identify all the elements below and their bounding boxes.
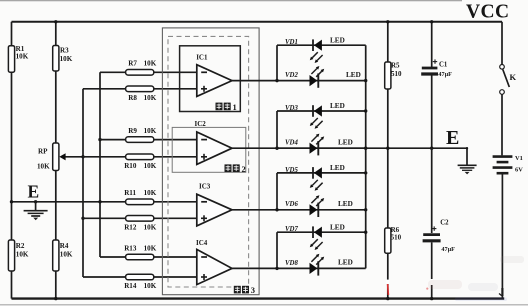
socket 1 box	[180, 46, 241, 112]
wire C1 to E row	[431, 76, 433, 149]
C2 plus sign	[432, 228, 436, 230]
svg-text:K: K	[510, 72, 517, 82]
wire IC3 output	[232, 209, 277, 211]
wire VD3 top side	[277, 110, 366, 112]
svg-text:R7: R7	[128, 60, 137, 68]
wire R5-R6 column	[387, 22, 389, 299]
VD1 emission arrows	[312, 52, 318, 58]
resistor R14	[126, 274, 154, 280]
C1 plus sign	[433, 61, 437, 63]
resistor R2	[8, 240, 14, 271]
node LED bus junction	[364, 231, 367, 234]
wire R10 row	[83, 156, 197, 158]
node C2-rail junction	[430, 297, 433, 300]
svg-text:R2: R2	[16, 242, 25, 250]
node VCC-R5 junction	[386, 20, 389, 23]
svg-text:R14: R14	[124, 282, 137, 290]
svg-text:V1: V1	[515, 155, 523, 162]
switch K upper contact	[500, 65, 505, 70]
ground symbol right	[458, 164, 477, 166]
wire C2 lower segment	[431, 285, 433, 299]
IC3 minus sign	[201, 201, 207, 203]
svg-text:10K: 10K	[144, 189, 157, 197]
VD5 emission arrows	[312, 180, 318, 186]
wire pair left vertical VD3/VD4	[276, 111, 278, 148]
IC1 minus sign	[201, 71, 207, 73]
svg-text:E: E	[446, 127, 459, 149]
node V1-R12 row junction	[81, 217, 84, 220]
node output-VD2 junction	[275, 79, 278, 82]
switch K lower contact	[500, 90, 505, 95]
LED VD8	[310, 263, 318, 274]
resistor R8	[126, 86, 154, 92]
svg-text:LED: LED	[330, 164, 345, 172]
svg-text:VD5: VD5	[285, 167, 298, 174]
node V2-E row junction	[98, 200, 101, 203]
svg-text:R4: R4	[60, 242, 69, 250]
wire VD7 top side	[277, 231, 366, 233]
svg-text:1: 1	[233, 102, 237, 112]
IC4 minus sign	[201, 256, 207, 258]
svg-text:C2: C2	[440, 220, 449, 227]
svg-text:LED: LED	[330, 36, 345, 44]
node VCC-R3 junction	[54, 20, 57, 23]
resistor R13	[126, 254, 154, 260]
wire bus V1 (non-inverting inputs)	[82, 89, 84, 277]
node LED bus junction	[364, 147, 367, 150]
wire C1-C2 column upper	[431, 22, 433, 67]
svg-text:3: 3	[251, 285, 255, 295]
node E-C1C2 junction	[430, 147, 433, 150]
node output-VD6 junction	[275, 208, 278, 211]
ground bottom rail wire	[12, 297, 505, 299]
svg-text:R10: R10	[124, 162, 137, 170]
node V1-R10 row junction	[81, 155, 84, 158]
module outer box	[162, 28, 259, 295]
svg-text:VD4: VD4	[285, 140, 298, 147]
wire bus V2 (inverting inputs)	[99, 72, 101, 257]
svg-text:R13: R13	[124, 244, 137, 252]
svg-text:E: E	[28, 182, 40, 202]
label socket1 (chazuo1)	[216, 103, 223, 111]
faint watermark smudges	[428, 256, 524, 301]
LED VD7	[312, 226, 314, 238]
VD8 emission arrows	[311, 256, 317, 262]
resistor R11	[126, 199, 154, 205]
module dashed box	[168, 36, 249, 287]
node VCC-C1 junction	[430, 20, 433, 23]
node LED bus junction	[364, 109, 367, 112]
svg-text:10K: 10K	[144, 244, 157, 252]
bottom scan border	[0, 304, 528, 306]
red dot near C2 line	[430, 279, 433, 284]
svg-text:LED: LED	[338, 259, 353, 267]
wire C2 to bottom rail	[431, 242, 433, 279]
capacitor C1	[422, 67, 438, 70]
op-amp IC2	[197, 132, 232, 164]
svg-text:IC2: IC2	[195, 120, 207, 128]
svg-text:10K: 10K	[144, 60, 157, 68]
IC2 plus sign	[201, 156, 207, 158]
wire battery to bottom rail	[501, 174, 503, 298]
resistor R9	[126, 137, 154, 143]
svg-text:6V: 6V	[515, 167, 523, 174]
node R6-rail junction	[386, 297, 389, 300]
svg-text:510: 510	[391, 234, 402, 242]
wire VCC to switch	[501, 22, 503, 65]
LED VD6	[310, 204, 318, 215]
resistor R5	[385, 62, 391, 89]
potentiometer RP body	[53, 143, 59, 171]
wire E corner down	[466, 148, 468, 165]
resistor R10	[126, 154, 154, 160]
wire VD1 top side	[277, 44, 366, 46]
wire R14 row	[83, 276, 197, 278]
svg-text:R12: R12	[124, 223, 137, 231]
resistor R3	[53, 46, 59, 72]
svg-text:R11: R11	[124, 189, 136, 197]
svg-text:IC4: IC4	[196, 239, 208, 247]
svg-text:LED: LED	[330, 223, 345, 231]
svg-text:R8: R8	[128, 94, 137, 102]
wire LED bus right vertical	[365, 45, 367, 268]
svg-text:10K: 10K	[60, 55, 73, 63]
wire R8 row	[83, 88, 197, 90]
wire VD4 bottom side	[277, 147, 366, 149]
capacitor C2	[423, 233, 440, 236]
resistor R7	[126, 70, 154, 76]
svg-text:10K: 10K	[144, 282, 157, 290]
LED VD2	[310, 75, 318, 86]
wire VD8 bottom side	[277, 267, 366, 269]
node output-VD4 junction	[275, 147, 278, 150]
IC4 plus sign	[201, 276, 207, 278]
svg-text:10K: 10K	[16, 53, 29, 61]
svg-text:10K: 10K	[144, 127, 157, 135]
label socket3 (chazuo3)	[234, 286, 241, 294]
op-amp IC1	[197, 65, 232, 97]
label socket2 (chazuo2)	[225, 164, 232, 172]
svg-text:LED: LED	[330, 102, 345, 110]
resistor R1	[8, 46, 14, 72]
VD3 emission arrows	[312, 118, 318, 124]
svg-text:VCC: VCC	[466, 2, 509, 23]
svg-text:10K: 10K	[144, 94, 157, 102]
svg-text:IC1: IC1	[196, 54, 208, 62]
node LED bus junction	[364, 79, 367, 82]
LED VD1	[312, 39, 314, 51]
LED VD4	[310, 143, 318, 154]
wire R12 row	[83, 217, 197, 219]
VD2 emission arrows	[311, 68, 317, 74]
svg-text:47µF: 47µF	[441, 246, 455, 253]
node E row right corner	[466, 147, 468, 149]
resistor R4	[53, 240, 59, 271]
LED VD5	[312, 167, 314, 179]
wire IC2 output / E row right	[232, 147, 467, 149]
VD6 emission arrows	[311, 198, 317, 204]
svg-text:10K: 10K	[37, 163, 50, 171]
node R4-rail junction	[54, 297, 57, 300]
dark hook on battery line	[501, 288, 503, 296]
wire pair left vertical VD5/VD6	[276, 173, 278, 210]
LED VD3	[312, 105, 314, 117]
svg-text:VD6: VD6	[285, 201, 298, 208]
wire IC1 output	[232, 80, 277, 82]
svg-text:C1: C1	[439, 62, 448, 69]
svg-text:IC3: IC3	[199, 183, 211, 191]
wire R13 row	[100, 256, 197, 258]
svg-text:LED: LED	[346, 71, 361, 79]
op-amp IC4	[197, 249, 232, 284]
op-amp IC3	[197, 194, 232, 226]
svg-text:LED: LED	[338, 138, 353, 146]
wire E row (to IC3 inverting input)	[12, 201, 197, 203]
svg-text:R3: R3	[60, 47, 69, 55]
wire E to C2	[431, 148, 433, 233]
page top scan border	[0, 0, 462, 2]
IC3 plus sign	[201, 217, 207, 219]
ground symbol left	[35, 202, 37, 210]
wire pair left vertical VD7/VD8	[276, 232, 278, 268]
wire pair left vertical VD1/VD2	[276, 45, 278, 80]
node E-ground junction	[34, 200, 37, 203]
resistor R6	[385, 228, 391, 253]
node V2-R9 row junction	[98, 138, 101, 141]
wire R7 row	[100, 71, 197, 73]
svg-text:VD7: VD7	[285, 226, 298, 233]
svg-text:10K: 10K	[144, 223, 157, 231]
node LED bus junction	[364, 171, 367, 174]
svg-text:2: 2	[242, 164, 246, 174]
battery V1 plates	[493, 155, 513, 158]
wire VD2 bottom side	[277, 80, 366, 82]
svg-text:VD8: VD8	[285, 260, 298, 267]
svg-text:47µF: 47µF	[438, 71, 452, 78]
wire IC4 output	[232, 267, 277, 269]
wire VD6 bottom side	[277, 209, 366, 211]
svg-text:10K: 10K	[60, 251, 73, 259]
node E-R5R6 junction	[386, 147, 389, 150]
svg-text:VD2: VD2	[285, 72, 298, 79]
red mark on R6 line	[387, 284, 390, 295]
VD4 emission arrows	[311, 136, 317, 142]
wire VD5 top side	[277, 172, 366, 174]
VCC top rail wire	[12, 21, 503, 23]
IC1 plus sign	[201, 88, 207, 90]
svg-text:R5: R5	[391, 61, 400, 69]
svg-text:RP: RP	[38, 147, 48, 155]
socket 2 box	[172, 127, 246, 172]
VD7 emission arrows	[312, 239, 318, 245]
wire R9 row	[100, 139, 197, 141]
svg-text:10K: 10K	[16, 251, 29, 259]
svg-text:510: 510	[391, 70, 402, 78]
node LED bus junction	[364, 208, 367, 211]
potentiometer RP wiper arrow	[64, 156, 83, 158]
wire R3-RP-R4 column	[55, 22, 57, 299]
svg-text:10K: 10K	[144, 162, 157, 170]
node E-left-rail junction	[10, 200, 13, 203]
svg-text:VD3: VD3	[285, 105, 298, 112]
IC2 minus sign	[201, 139, 207, 141]
svg-text:VD1: VD1	[285, 39, 298, 46]
svg-text:LED: LED	[338, 200, 353, 208]
node output-VD8 junction	[275, 267, 278, 270]
resistor R12	[126, 216, 154, 222]
wire switch to battery	[501, 94, 503, 155]
wire left rail vertical	[11, 22, 13, 299]
switch K lever	[503, 70, 510, 88]
svg-text:R9: R9	[128, 127, 137, 135]
